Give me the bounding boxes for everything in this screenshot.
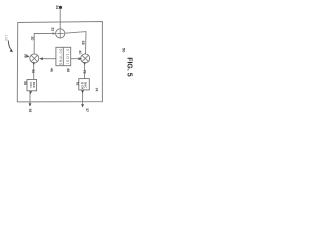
svg-text:9 0 ° P H S: 9 0 ° P H S	[58, 49, 62, 66]
svg-text:48: 48	[66, 68, 70, 72]
op: summing/splitter circle 32	[56, 29, 65, 38]
svg-text:100: 100	[4, 35, 8, 41]
wire: box to left mixer with arrow	[41, 58, 56, 60]
block: bottom-left box 42	[27, 80, 37, 91]
wire: box to right mixer with arrow	[71, 58, 79, 60]
wire: right mixer down to box 44	[84, 63, 86, 79]
outer system box (enclosure)	[17, 22, 102, 102]
svg-text:50: 50	[122, 48, 127, 53]
arrowhead below box 44	[81, 90, 84, 93]
curved leader line (label 100)	[8, 41, 11, 50]
arrowhead at right mixer input	[83, 62, 86, 65]
svg-text:36: 36	[28, 109, 32, 113]
wire: circle left to left mixer	[34, 33, 55, 54]
svg-text:32: 32	[51, 27, 55, 31]
svg-text:72: 72	[82, 70, 86, 74]
arrowhead at bottom-left terminal	[29, 103, 32, 106]
svg-text:58: 58	[23, 81, 27, 85]
svg-text:37: 37	[85, 108, 89, 112]
wire: terminal to summing circle	[59, 9, 61, 29]
svg-text:62: 62	[75, 82, 79, 86]
svg-text:30: 30	[30, 36, 34, 40]
leader nub for label 32	[53, 32, 56, 35]
arrowhead of leader (label 100)	[10, 49, 13, 52]
svg-text:Q CH: Q CH	[81, 82, 85, 89]
svg-text:I CH: I CH	[29, 82, 33, 88]
wire: box 44 down to external terminal	[82, 90, 84, 107]
wire: left mixer down to box 42	[33, 63, 35, 80]
op: left mixer circle-X 38	[30, 54, 39, 63]
wire: box 42 down to external terminal	[29, 91, 31, 106]
svg-text:68: 68	[81, 41, 85, 45]
svg-text:40: 40	[78, 50, 82, 54]
op: right mixer circle-X 40	[81, 54, 90, 63]
block: bottom-right box 44	[79, 79, 90, 90]
svg-text:46: 46	[49, 68, 53, 72]
block: phase splitter box, two columns	[56, 47, 71, 65]
svg-text:74: 74	[95, 88, 99, 92]
arrowhead below box 42	[29, 91, 32, 94]
wire: circle right to right mixer	[65, 32, 86, 54]
node: top output terminal dot	[59, 6, 62, 9]
svg-text:0 ° L O S I: 0 ° L O S I	[66, 49, 70, 64]
leader arrow for label 38	[27, 55, 30, 58]
svg-text:FIG. 5: FIG. 5	[125, 57, 132, 77]
svg-text:34: 34	[55, 5, 59, 9]
arrowhead at bottom-right terminal	[81, 104, 84, 107]
svg-text:56: 56	[31, 69, 35, 73]
arrowhead at left mixer input	[32, 62, 35, 65]
